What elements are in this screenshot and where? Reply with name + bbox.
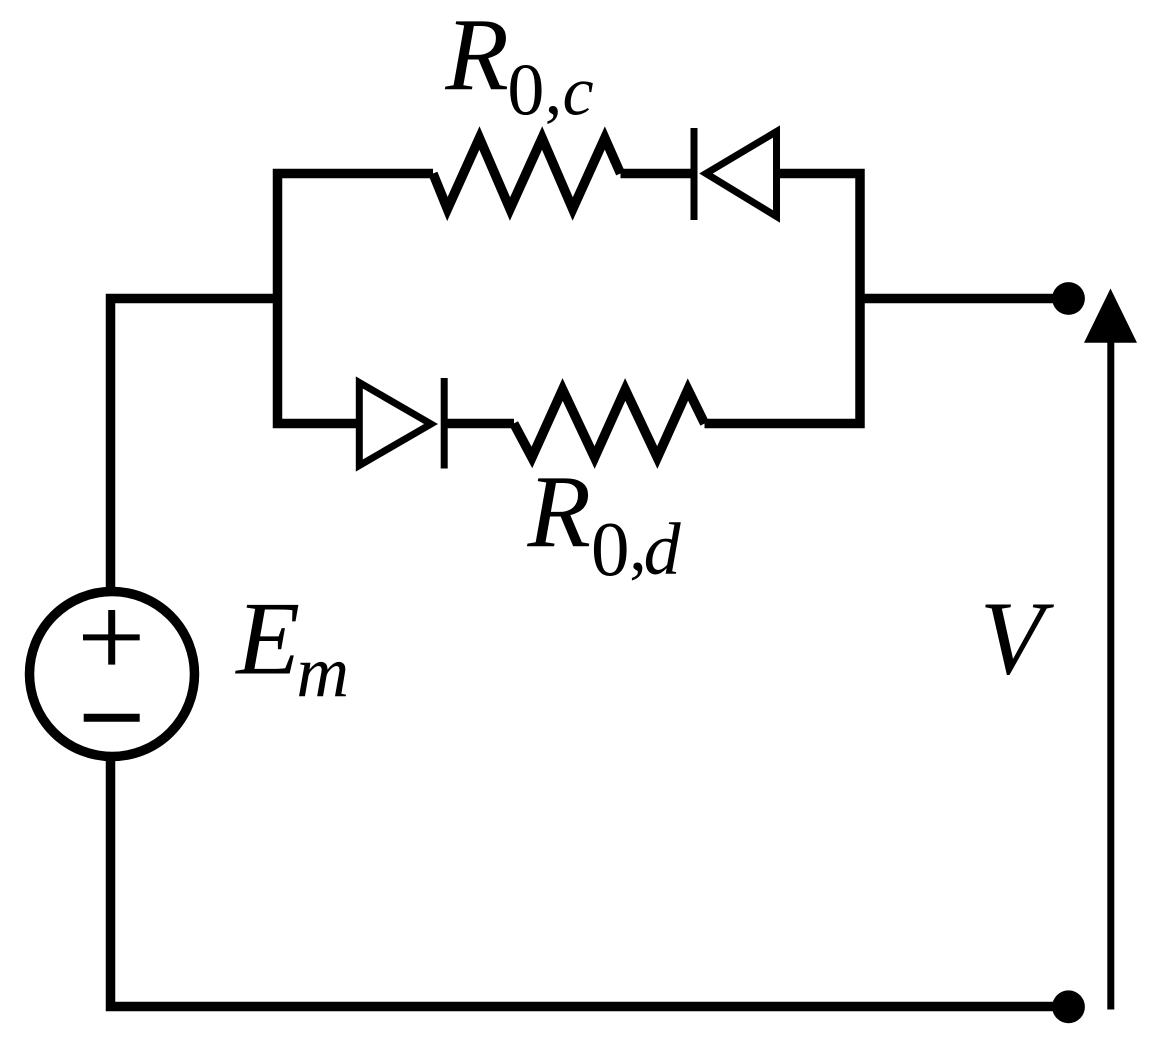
svg-text:m: m [296,632,349,713]
label E_m [234,580,349,712]
svg-text:R: R [527,455,592,570]
diode D1 triangle (pointing left) [706,132,777,217]
V arrow shaft [1107,341,1114,1010]
resistor R_{0,d} zigzag [514,390,705,458]
svg-text:E: E [234,580,300,696]
resistor R_{0,c} zigzag [433,138,621,209]
wire: parallel-section left vertical with top and bottom branch leads [278,174,434,424]
diode D2 cathode bar [441,378,448,469]
diode D1 cathode bar [691,128,698,220]
wire: right vertical to top-right terminal [860,294,1056,304]
label R_{0,d} [527,455,682,592]
svg-text:V: V [980,580,1055,697]
node: bottom-right terminal dot [1052,990,1085,1023]
svg-text:R: R [444,0,509,113]
label R_{0,c} [444,0,593,132]
diode D2 triangle (pointing right) [359,383,431,466]
wire: diode D2 to resistor R_{0,d} [444,419,514,429]
svg-text:0: 0 [591,506,630,592]
wire: resistor R_{0,c} to diode D1 cathode [621,169,695,179]
wire: left rail from source bottom, along bottom to right terminal [111,757,1057,1007]
svg-text:,: , [545,52,563,129]
svg-text:c: c [563,53,594,130]
wire: diode D1 to right vertical, down, and bottom branch lead [705,174,861,424]
V arrow head [1084,289,1137,343]
minus sign of source [84,714,140,722]
voltage source E_m circle [30,592,195,757]
svg-text:d: d [644,509,682,591]
plus sign of source [83,610,140,665]
svg-text:0: 0 [507,50,544,132]
node: top-right terminal dot [1052,282,1085,315]
wire: left rail from main node down to source top [111,299,278,592]
